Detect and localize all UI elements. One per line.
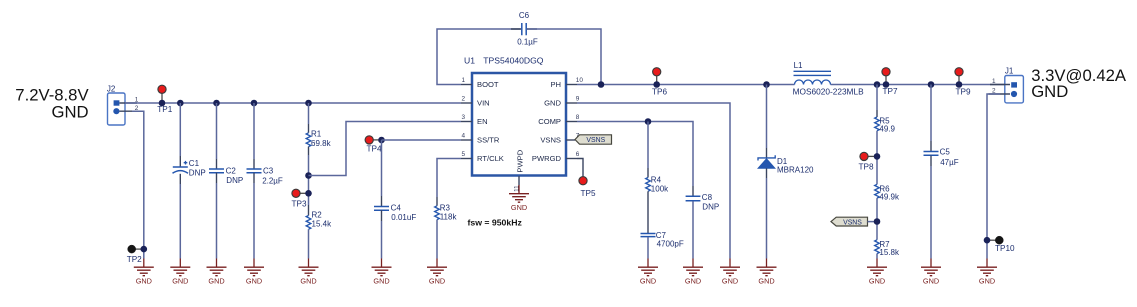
wire R3 to ground [436,220,438,259]
node C2 junction [213,100,220,107]
stub C5 top [930,141,932,152]
stub C8 top [692,186,694,196]
wire C3 branch upper [253,103,255,159]
U1 pin 11 lead [514,176,521,192]
diode D1 MBRA120 (schottky) [758,148,814,178]
ground TP2 column [134,259,154,286]
wire R2 to ground [308,229,310,258]
svg-text:49.9: 49.9 [879,125,895,134]
wire GND pin 9 net [577,103,730,259]
ground C2 [207,259,227,286]
input voltage text 7.2V-8.8V / GND [15,86,89,122]
svg-text:TPS54040DGQ: TPS54040DGQ [483,56,544,66]
svg-text:TP7: TP7 [883,87,898,96]
test point TP6 [652,68,667,97]
capacitor C5 47uF [924,148,959,167]
wire J2 pin2 to ground column [132,111,144,258]
svg-text:6: 6 [576,151,580,158]
node C1 junction [177,100,184,107]
wire C5 branch upper [930,85,932,142]
node D1 junction [763,81,770,88]
svg-text:C2: C2 [226,166,237,175]
svg-text:RT/CLK: RT/CLK [477,154,504,163]
svg-text:C6: C6 [519,11,530,20]
test point TP3 [292,189,312,208]
wire BOOT loop right [528,29,602,85]
capacitor C2 (DNP) [209,166,243,185]
svg-text:10: 10 [576,77,584,84]
wire C3 branch lower [253,183,255,259]
wire R1 branch upper [308,103,310,124]
U1 pin 4 SS/TR [461,133,500,145]
svg-text:PWRGD: PWRGD [532,154,562,163]
node C3 junction [251,100,258,107]
resistor R5 49.9 [875,116,896,133]
test point TP4 [365,136,385,154]
svg-text:J2: J2 [107,85,116,94]
ground C3 [244,259,264,286]
svg-text:TP2: TP2 [127,255,142,264]
node VSNS divider junction [874,218,881,225]
svg-text:9: 9 [576,96,580,103]
resistor R6 49.9k [875,184,900,201]
svg-text:GND: GND [1031,82,1068,101]
svg-text:118k: 118k [440,212,458,221]
svg-text:C1: C1 [189,159,200,168]
svg-text:49.9k: 49.9k [879,193,900,202]
capacitor C7 4700pF [641,231,684,248]
net label VSNS (feedback) [831,217,868,226]
svg-text:C8: C8 [702,193,713,202]
svg-text:U1: U1 [464,56,475,66]
wire C8 to ground [692,201,694,258]
wire EN link [309,122,462,176]
U1 pin 6 PWRGD [532,151,580,163]
ground C7 [638,259,658,286]
wire PH net [577,84,1005,86]
ground C1 [170,259,190,286]
U1 pin 2 VIN [461,96,490,108]
svg-text:4: 4 [461,133,465,140]
ground C4 [372,259,392,286]
svg-text:11: 11 [514,185,521,192]
svg-text:GND: GND [544,99,561,108]
svg-text:PH: PH [550,80,561,89]
svg-text:4700pF: 4700pF [657,239,684,248]
J1 pin 1 lead [990,84,1010,86]
resistor R2 15.4k [306,211,332,230]
wire J1 pin2 to ground column [987,94,1000,259]
svg-text:0.1µF: 0.1µF [517,38,538,47]
svg-text:TP3: TP3 [292,199,307,208]
svg-text:0.01uF: 0.01uF [391,213,416,222]
resistor R4 100k [646,175,669,193]
svg-text:R4: R4 [651,175,662,184]
test point TP9 [955,68,971,97]
svg-text:C4: C4 [391,203,402,212]
ground R7 [867,259,887,286]
svg-text:DNP: DNP [226,176,243,185]
stub R1 top [308,124,310,133]
wire VSNS flag to divider [868,221,878,223]
wire R6 to R7 [876,198,878,240]
svg-text:PWPD: PWPD [515,149,524,172]
wire R1 to R2 [308,155,310,205]
wire C1 branch lower [179,184,181,259]
svg-text:TP9: TP9 [956,87,971,96]
svg-text:MOS6020-223MLB: MOS6020-223MLB [793,86,864,96]
svg-text:8: 8 [576,114,580,121]
test point TP10 [984,236,1015,253]
svg-text:1: 1 [461,77,465,84]
capacitor C8 DNP [686,193,720,212]
stub R2 top [308,205,310,216]
wire R7 to ground [876,254,878,259]
output voltage text 3.3V@0.42A / GND [1031,66,1127,101]
ground U1 GND pin net [720,259,740,286]
wire C2 branch upper [216,103,218,159]
ground C5 [921,259,941,286]
svg-text:TP10: TP10 [995,244,1015,253]
stub C4 bottom [381,210,383,221]
svg-text:100k: 100k [651,185,669,194]
svg-text:R3: R3 [440,203,451,212]
svg-text:VSNS: VSNS [843,219,862,226]
svg-text:3: 3 [461,114,465,121]
svg-text:47µF: 47µF [940,158,959,167]
resistor R1 69.8k [306,129,331,148]
capacitor C1 (polarized, DNP) [173,159,206,178]
svg-text:TP6: TP6 [652,88,667,97]
svg-text:15.8k: 15.8k [879,248,900,257]
op-amp/IC U1 TPS54040DGQ box [464,56,566,176]
wire R5 branch upper [876,85,878,111]
wire BOOT loop left [437,29,521,85]
wire R4 to C7 [647,191,649,233]
wire R5 to R6 [876,131,878,185]
svg-text:TP8: TP8 [859,162,874,171]
U1 pin 7 VSNS [540,133,579,145]
resistor R7 15.8k [875,240,900,257]
node R4 junction [645,118,652,125]
svg-text:TP4: TP4 [367,144,382,153]
inductor L1 MOS6020-223MLB [793,61,864,96]
test point TP5 [579,177,596,199]
wire R4 branch [647,122,649,169]
connector J1 [1005,66,1024,103]
capacitor C4 0.01uF [374,203,416,222]
ground U1 thermal pad [509,185,529,212]
J2 pin 1 lead [120,102,138,104]
U1 pin 9 GND [544,96,580,108]
svg-text:69.8k: 69.8k [311,139,332,148]
svg-text:SS/TR: SS/TR [477,136,500,145]
ground R2 [299,259,319,286]
svg-text:DNP: DNP [702,203,719,212]
svg-text:VSNS: VSNS [586,137,605,144]
svg-text:15.4k: 15.4k [312,220,333,229]
svg-text:J1: J1 [1005,66,1014,75]
net label VSNS (pin 7) [575,135,612,144]
svg-text:COMP: COMP [538,117,561,126]
svg-text:EN: EN [477,117,488,126]
wire C5 to ground [930,166,932,259]
wire D1 to ground [766,178,768,259]
wire VIN rail [125,102,461,104]
wire C7 to ground [647,237,649,259]
stub C2 top [216,159,218,169]
node R5 branch junction [874,81,881,88]
ground D1 [757,259,777,286]
wire D1 branch upper [766,85,768,149]
stub C4 top [381,196,383,207]
wire C4 branch lower [381,221,383,259]
stub C1 bottom [179,174,181,184]
stub R3 top [436,197,438,206]
node C6/PH junction [598,81,605,88]
U1 pin 10 PH [550,77,583,89]
capacitor C3 2.2uF [247,166,283,185]
test point TP7 [882,68,898,96]
svg-text:fsw = 950kHz: fsw = 950kHz [468,217,523,227]
svg-text:R2: R2 [312,211,323,220]
svg-text:VIN: VIN [477,99,490,108]
node R1 junction [305,100,312,107]
wire RT/CLK to R3 [437,159,461,198]
stub C5 bottom [930,156,932,166]
stub R5 top [876,110,878,117]
connector J2 [107,85,125,126]
J2 pin 2 lead [120,110,143,112]
stub R1 bottom [308,147,310,155]
wire C4 branch upper [381,140,383,196]
stub C1 top [179,156,181,167]
wire PWRGD to TP5 [577,159,583,177]
svg-text:C3: C3 [263,166,274,175]
ground C8 [683,259,703,286]
svg-text:VSNS: VSNS [540,136,561,145]
svg-text:DNP: DNP [189,169,206,178]
svg-text:BOOT: BOOT [477,80,499,89]
svg-text:TP5: TP5 [581,189,596,198]
capacitor C6 0.1uF [511,11,538,47]
U1 pin 1 BOOT [461,77,499,89]
svg-text:GND: GND [52,102,89,121]
U1 pin 3 EN [461,114,488,126]
svg-text:2.2µF: 2.2µF [262,176,283,185]
svg-text:2: 2 [461,96,465,103]
stub R4 top [647,168,649,178]
U1 pin 5 RT/CLK [461,151,504,163]
svg-text:MBRA120: MBRA120 [777,165,814,174]
wire C2 branch lower [216,183,218,259]
wire C1 branch upper [179,103,181,156]
svg-text:R1: R1 [311,129,322,138]
U1 pin 8 COMP [538,114,580,126]
test point TP8 [859,152,881,171]
svg-text:TP1: TP1 [157,105,172,114]
node R1/R2 divider junction [305,172,312,179]
resistor R3 118k [435,203,458,221]
test point TP1 [157,85,172,114]
stub C2 bottom [216,173,218,183]
stub C3 top [253,159,255,169]
svg-text:C5: C5 [940,148,951,157]
J1 pin 2 lead [989,93,1011,95]
wire SS/TR [382,139,462,141]
svg-text:5: 5 [461,151,465,158]
ground R3 [427,259,447,286]
ground J1 return [977,259,997,286]
wire COMP net [577,122,693,187]
svg-text:L1: L1 [794,61,803,70]
stub C3 bottom [253,173,255,183]
test point TP2 [127,245,147,264]
node C5 junction [928,81,935,88]
